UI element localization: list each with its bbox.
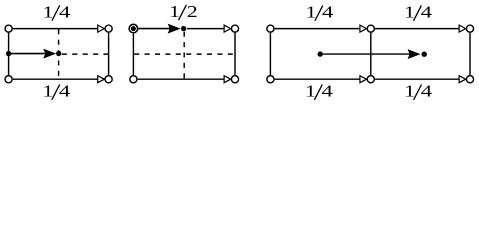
svg-text:4: 4 — [421, 82, 433, 101]
svg-text:1: 1 — [169, 2, 180, 21]
svg-text:1: 1 — [404, 3, 415, 22]
svg-text:4: 4 — [421, 3, 433, 22]
svg-text:1: 1 — [43, 82, 54, 101]
svg-text:4: 4 — [59, 82, 71, 101]
svg-text:4: 4 — [59, 2, 71, 21]
svg-text:4: 4 — [322, 3, 334, 22]
svg-text:1: 1 — [306, 3, 317, 22]
svg-text:2: 2 — [187, 2, 198, 21]
svg-text:1: 1 — [43, 2, 54, 21]
svg-text:1: 1 — [404, 82, 415, 101]
svg-text:4: 4 — [322, 82, 334, 101]
svg-text:1: 1 — [305, 82, 316, 101]
